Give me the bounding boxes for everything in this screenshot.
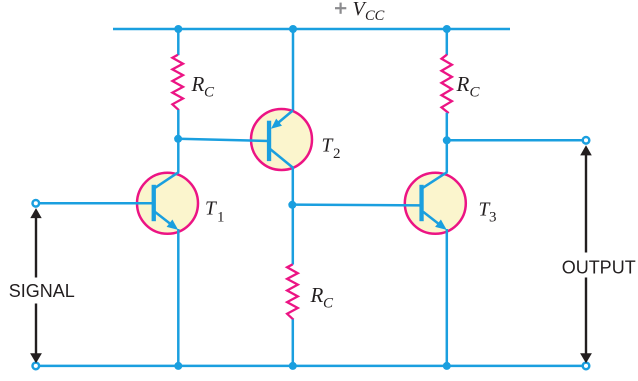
T3 emitter arrow	[435, 220, 447, 230]
transistor T1	[39, 172, 198, 234]
output arrow upper head	[580, 145, 592, 155]
node bottom-middle junction	[289, 362, 297, 370]
signal arrow lower shaft	[35, 304, 37, 355]
label RC middle	[310, 283, 335, 312]
wire node C to output terminal	[447, 139, 583, 142]
T3 emitter lead	[423, 212, 440, 225]
wire RC2 to bottom rail	[292, 319, 295, 366]
signal arrow upper shaft	[35, 217, 37, 278]
svg-text:SIGNAL: SIGNAL	[9, 281, 75, 301]
signal arrow lower head	[30, 353, 42, 363]
wire T2 collector to node B	[292, 168, 295, 206]
T1 emitter arrow	[167, 220, 179, 230]
node top-left junction	[174, 25, 182, 33]
wire top supply rail	[113, 28, 510, 31]
node B junction	[288, 201, 296, 209]
T1 collector lead	[155, 172, 179, 188]
T2 base bar	[267, 121, 271, 161]
node bottom-right junction	[443, 362, 451, 370]
output arrow lower shaft	[585, 278, 587, 355]
label T3	[479, 200, 497, 226]
label T1	[205, 199, 225, 226]
wire node B to T3 base lead	[292, 203, 421, 206]
wire node A down to T1 collector	[177, 139, 180, 173]
resistor RC3 (right)	[442, 55, 452, 114]
T2 emitter arrow	[271, 119, 282, 129]
signal arrow upper head	[30, 208, 41, 218]
terminal output bottom	[583, 363, 590, 370]
node C junction	[443, 136, 451, 144]
wire rail down to T2 emitter	[292, 29, 295, 111]
svg-text:C: C	[470, 85, 481, 101]
label RC left	[191, 72, 216, 101]
terminal input bottom	[33, 363, 40, 370]
output arrow lower head	[580, 353, 592, 363]
resistor RC2 (middle)	[287, 264, 298, 319]
svg-text:T: T	[322, 136, 334, 157]
svg-text:OUTPUT: OUTPUT	[562, 257, 636, 277]
wire node C down to T3 collector	[446, 140, 449, 172]
svg-text:R: R	[191, 72, 205, 96]
svg-text:C: C	[204, 85, 215, 101]
terminal input top	[33, 200, 40, 207]
node A junction	[174, 135, 182, 143]
wire node B down to RC2	[292, 205, 295, 265]
transistor T3	[292, 172, 466, 234]
T2 emitter lead	[279, 111, 293, 123]
T3 collector lead	[422, 172, 447, 188]
svg-text:T: T	[205, 199, 217, 220]
wire bottom rail	[40, 365, 583, 368]
wire T1 emitter to bottom rail	[177, 229, 180, 366]
wire T1 base lead	[39, 202, 153, 205]
wire R3 to node C	[446, 113, 449, 141]
T2 collector lead	[270, 149, 294, 169]
wire node A to T2 base lead	[178, 139, 269, 141]
svg-text:2: 2	[333, 146, 341, 162]
T3 base bar	[419, 185, 423, 221]
svg-text:1: 1	[217, 210, 225, 226]
svg-text:C: C	[323, 296, 334, 312]
svg-text:CC: CC	[365, 8, 385, 24]
node top-right junction	[443, 25, 451, 33]
wire T3 emitter to bottom rail	[446, 229, 449, 366]
T1 base bar	[152, 185, 156, 221]
wire R1 to node A	[177, 110, 180, 139]
node bottom-left junction	[174, 362, 182, 370]
svg-text:R: R	[310, 283, 324, 307]
output arrow upper shaft	[585, 155, 587, 253]
wire rail to R1	[177, 29, 180, 55]
terminal output top	[583, 137, 590, 144]
svg-text:3: 3	[489, 209, 497, 225]
label RC right	[456, 72, 481, 101]
transistor T2	[178, 109, 312, 170]
wire rail to R3	[446, 29, 449, 55]
label +VCC	[335, 0, 385, 24]
node top-middle junction	[289, 25, 297, 33]
label T2	[322, 136, 341, 162]
svg-text:R: R	[456, 72, 470, 96]
T1 emitter lead	[155, 212, 172, 225]
resistor RC1 (left)	[172, 55, 183, 110]
